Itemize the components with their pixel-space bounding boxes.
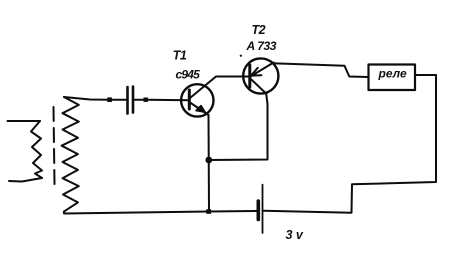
svg-text:T2: T2 bbox=[252, 23, 266, 37]
wire: bottom rail from transformer to battery bbox=[64, 211, 257, 214]
wire: relay to right vertical bbox=[264, 75, 437, 213]
transistor T1 emitter lead with arrow bbox=[190, 103, 209, 212]
svg-text:c945: c945 bbox=[176, 68, 201, 82]
transformer primary winding L1 top lead wire bbox=[8, 120, 41, 122]
stray dot near T2 bbox=[240, 55, 242, 57]
transistor T2 emitter arrowhead barb 1 bbox=[251, 74, 261, 77]
svg-text:3 v: 3 v bbox=[286, 228, 304, 242]
wire: secondary top lead to capacitor bbox=[64, 97, 108, 100]
transformer primary winding L1 zigzag bbox=[31, 121, 42, 178]
svg-text:A 733: A 733 bbox=[246, 39, 277, 53]
transformer secondary winding L2 zigzag bbox=[62, 97, 79, 212]
transistor T2 collector lead bbox=[250, 79, 266, 94]
transformer primary winding L1 bottom lead wire bbox=[9, 178, 42, 182]
svg-text:реле: реле bbox=[378, 67, 407, 81]
transistor T2 circle bbox=[243, 58, 278, 93]
transistor T1 emitter arrowhead bbox=[196, 106, 205, 113]
wire: T2 emitter to relay (with jog) bbox=[272, 63, 368, 77]
node: square junction on bottom rail bbox=[206, 209, 211, 214]
battery B1 short thick plate bbox=[256, 201, 260, 220]
transistor T2 emitter lead bbox=[252, 63, 274, 76]
node: square junction left of capacitor bbox=[107, 97, 112, 102]
capacitor C1 left plate bbox=[126, 87, 129, 114]
node: square junction right of capacitor bbox=[144, 98, 148, 102]
transformer core (dashed) bbox=[54, 107, 55, 185]
transistor T1 base bar bbox=[188, 90, 191, 109]
transistor T2 base bar bbox=[248, 65, 251, 87]
relay box bbox=[369, 65, 416, 91]
node: round junction dot at T1 emitter bbox=[205, 157, 212, 164]
transistor T1 collector lead bbox=[190, 77, 250, 99]
wire: T1 emitter junction to T2 collector (horizontal) bbox=[209, 94, 268, 160]
capacitor C1 right plate bbox=[132, 87, 135, 113]
transistor T1 circle bbox=[181, 84, 213, 116]
wire: capacitor to square junction bbox=[134, 99, 144, 101]
wire: junction to capacitor C1 bbox=[112, 99, 126, 101]
battery B1 long plate bbox=[262, 185, 264, 233]
wire: junction to T1 base bbox=[148, 99, 189, 102]
svg-text:T1: T1 bbox=[173, 49, 187, 63]
transistor T2 emitter arrowhead barb 2 bbox=[251, 68, 258, 76]
